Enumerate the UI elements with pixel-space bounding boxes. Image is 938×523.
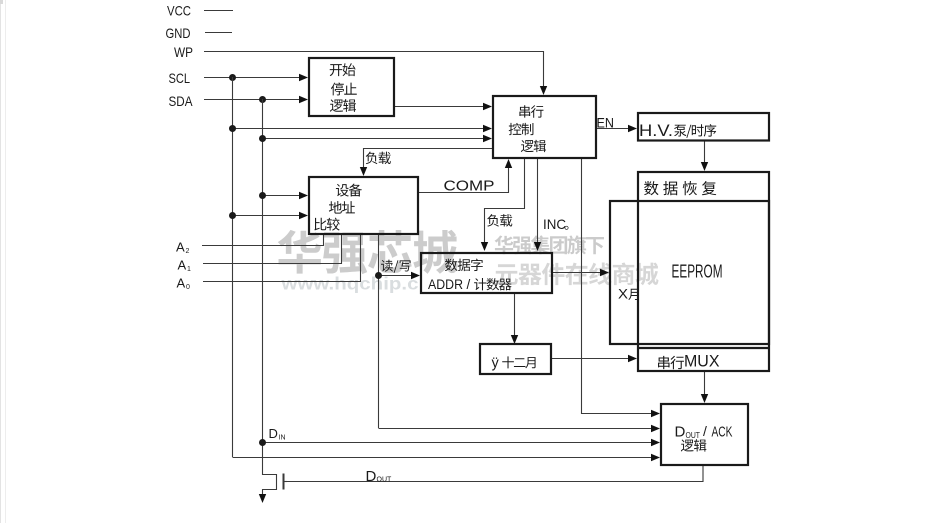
wire INC serial-control to data-word counter [537,158,539,244]
svg-text:X: X [618,287,628,302]
svg-text:H.V.: H.V. [639,121,673,140]
svg-text:OUT: OUT [686,431,701,440]
wire SDA vertical bus [262,99,264,475]
block Dout ACK logic box [661,404,748,465]
wire compare box to serial MUX [551,358,630,360]
block data recovery + eeprom + serial mux outer box [638,172,769,371]
svg-text:D: D [675,423,686,440]
wire HV pump to data recovery [704,140,706,165]
label 数据字 [445,259,483,272]
svg-text:ADDR: ADDR [428,277,463,292]
wire read-write arrow into data-word box [379,275,414,277]
svg-text:VCC: VCC [167,3,191,19]
wire load1 from serial control to device address [364,149,494,170]
transistor output MOSFET [263,475,277,497]
svg-text:MUX: MUX [684,352,720,371]
svg-text:INC: INC [543,216,566,232]
block HV pump timing box [638,113,769,141]
svg-text:COMP: COMP [444,179,495,195]
wire VCC stub [204,10,233,12]
svg-text:D: D [269,426,278,441]
wire DOUT output line [287,465,704,482]
svg-text:ÿ: ÿ [492,356,500,372]
label 数据恢复 [644,181,716,195]
svg-text:ACK: ACK [712,423,733,440]
wire A2 [202,234,324,246]
wire SCL bottom to Dout ACK y457 [233,457,654,459]
svg-text:OUT: OUT [377,477,393,484]
block start-stop logic box [309,58,394,116]
label 停止 [331,82,357,95]
watermark 元器件在线商城 [495,262,658,285]
wire serial MUX to Dout ACK [704,371,706,397]
svg-text:SCL: SCL [169,70,191,86]
svg-text:WP: WP [174,44,193,60]
block data word addr counter box [421,253,552,293]
separator serial MUX top [638,347,769,349]
label 开始 [330,63,356,76]
wire A0 [203,234,361,282]
svg-text:SDA: SDA [169,93,194,109]
svg-text:IN: IN [279,435,286,442]
wire read-write bottom to Dout ACK y428 [379,428,654,430]
svg-text:EN: EN [597,115,615,131]
svg-text:GND: GND [166,25,191,41]
label 逻辑 dout-ack [681,439,707,451]
wire SDA branch y195 to device address [263,195,302,197]
wire EN serial-control to HV pump [596,128,630,130]
label 串行 [519,105,543,117]
watermark 华强集团旗下 [495,235,604,254]
wire DIN to Dout ACK y442 [263,442,654,444]
svg-text:1: 1 [187,266,191,273]
label 串行MUX [658,356,684,369]
wire serial-control down to Dout ACK y413 [582,158,654,414]
wire SCL branch y215 to device address [233,215,302,217]
label 读/写 [381,260,411,273]
wire A1 [203,234,342,264]
svg-text:www.hqchip.c: www.hqchip.c [280,274,418,294]
label 设备 [336,184,362,197]
label 负载 load2 [487,214,512,226]
wire GND stub [205,32,232,34]
block serial control logic box [493,96,596,158]
wire SCL vertical bus [232,77,234,457]
label 负载 load1 [366,152,391,164]
wire SCL branch y128 to serial control [233,128,486,130]
svg-text:A: A [176,240,185,255]
label 逻辑 serial-control [521,140,546,152]
watermark big 华强芯城 [278,230,458,274]
label 比较 [314,218,339,231]
wire COMP device-address to serial-control [418,166,509,193]
wire data-word to X decoder [552,272,603,274]
svg-text:EEPROM: EEPROM [672,262,723,282]
label 地址 [329,201,355,214]
label 逻辑 start-stop [330,99,356,112]
wire load2 serial-control to data-word counter [485,158,525,244]
svg-text:/: / [703,423,707,439]
wire SDA branch y138 to serial control [263,138,486,140]
svg-text:A: A [177,276,186,291]
block EEPROM box [610,201,769,344]
wire SDA lead [204,99,301,101]
svg-text:D: D [366,468,377,485]
block device address compare box [309,177,418,234]
page left edge faint border [0,0,2,523]
block compare/december box [480,344,551,374]
wire start-stop to serial control [394,106,485,108]
wire WP to serial-control top [204,52,544,89]
wire read-write vertical from device-address [378,234,380,428]
svg-text:A: A [178,258,187,273]
svg-text:2: 2 [186,248,190,255]
svg-text:/: / [467,277,471,292]
svg-text:0: 0 [186,284,190,291]
label 控制 [509,123,534,135]
wire SCL lead [204,77,301,79]
wire data-word down to compare box [514,293,516,337]
